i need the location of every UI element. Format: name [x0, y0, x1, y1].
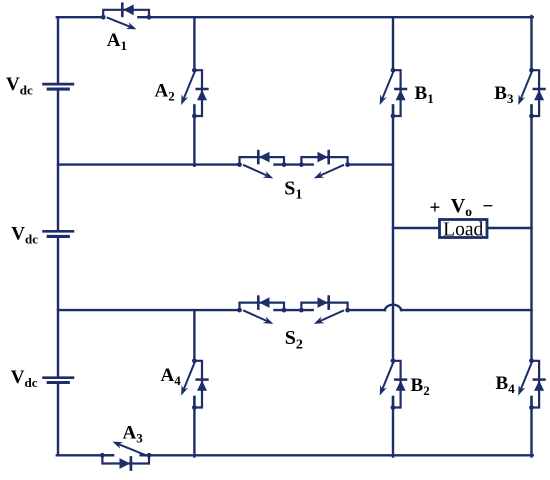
bidirectional switch S1 middle link wire — [275, 163, 313, 165]
svg-text:A1: A1 — [107, 30, 127, 53]
switch B1 with antiparallel diode — [380, 68, 406, 119]
battery V_dc 2 — [44, 231, 73, 236]
battery V_dc 3 — [44, 378, 73, 383]
wire: S1 row right segment to inner branch — [348, 163, 393, 165]
svg-text:Vo: Vo — [451, 195, 472, 219]
bidirectional switch S2 middle link wire — [275, 309, 313, 311]
switch A3 with antiparallel diode — [100, 442, 151, 470]
wire: load row left segment — [393, 227, 440, 229]
svg-text:A3: A3 — [123, 422, 144, 445]
svg-text:+: + — [430, 198, 441, 219]
wire: left rail segment top — [57, 17, 59, 84]
svg-text:B3: B3 — [494, 83, 514, 106]
switch A4 with antiparallel diode — [181, 358, 207, 410]
svg-text:Vdc: Vdc — [6, 74, 33, 97]
battery V_dc 1 — [44, 84, 73, 89]
wire: right rail below B4 — [530, 397, 532, 457]
svg-text:B1: B1 — [415, 83, 434, 106]
switch B3 with antiparallel diode — [518, 68, 544, 119]
wire: A4 branch from S2 row — [193, 310, 195, 361]
bidirectional switch S1 right IGBT+diode — [299, 151, 350, 178]
wire: left rail segment between Vdc1 and Vdc2 — [57, 89, 59, 231]
wire: A2 branch from top rail — [193, 17, 195, 70]
wire: bottom rail left of A3 — [57, 454, 113, 456]
svg-text:S2: S2 — [285, 327, 303, 352]
wire: A4 branch to bottom rail — [193, 397, 195, 457]
svg-text:Vdc: Vdc — [11, 367, 38, 390]
wire: S2 row segment to right rail — [401, 309, 532, 311]
svg-text:S1: S1 — [284, 178, 302, 203]
wire: bottom rail right of A3 — [141, 454, 533, 456]
svg-text:A4: A4 — [161, 365, 182, 388]
svg-text:B4: B4 — [496, 373, 516, 396]
wire: S2 row segment to crossover — [348, 309, 385, 311]
switch A1 with antiparallel diode — [101, 4, 152, 30]
wire: A2 branch to S1 row — [193, 106, 195, 166]
svg-text:B2: B2 — [411, 375, 430, 398]
wire: inner branch above B1 — [392, 17, 394, 70]
switch A2 with antiparallel diode — [181, 68, 207, 119]
wire: inner branch below B2 — [392, 397, 394, 457]
wire: S1 row left segment — [58, 163, 240, 165]
switch B4 with antiparallel diode — [518, 358, 544, 410]
wire: load row right segment — [487, 227, 532, 229]
wire: S2 row left segment — [58, 309, 240, 311]
wire: inner branch B1 to B2 — [392, 106, 394, 361]
switch B2 with antiparallel diode — [380, 358, 406, 410]
wire: right rail B3 to B4 — [530, 106, 532, 361]
bidirectional switch S2 left IGBT+diode — [237, 297, 286, 324]
load box — [440, 220, 488, 238]
svg-text:Load: Load — [443, 219, 483, 240]
wire: left rail segment between Vdc2 and Vdc3 — [57, 236, 59, 377]
svg-text:Vdc: Vdc — [11, 223, 38, 246]
wire: top rail right of A1 — [149, 16, 533, 18]
bidirectional switch S2 right IGBT+diode — [299, 297, 350, 324]
wire: top rail left of A1 — [57, 16, 104, 18]
bidirectional switch S1 left IGBT+diode — [237, 151, 286, 178]
wire: right rail above B3 — [530, 16, 532, 70]
wire: crossover hop over inner branch — [385, 305, 402, 310]
svg-text:−: − — [483, 196, 494, 217]
wire: left rail segment bottom — [57, 383, 59, 456]
svg-text:A2: A2 — [155, 81, 175, 104]
